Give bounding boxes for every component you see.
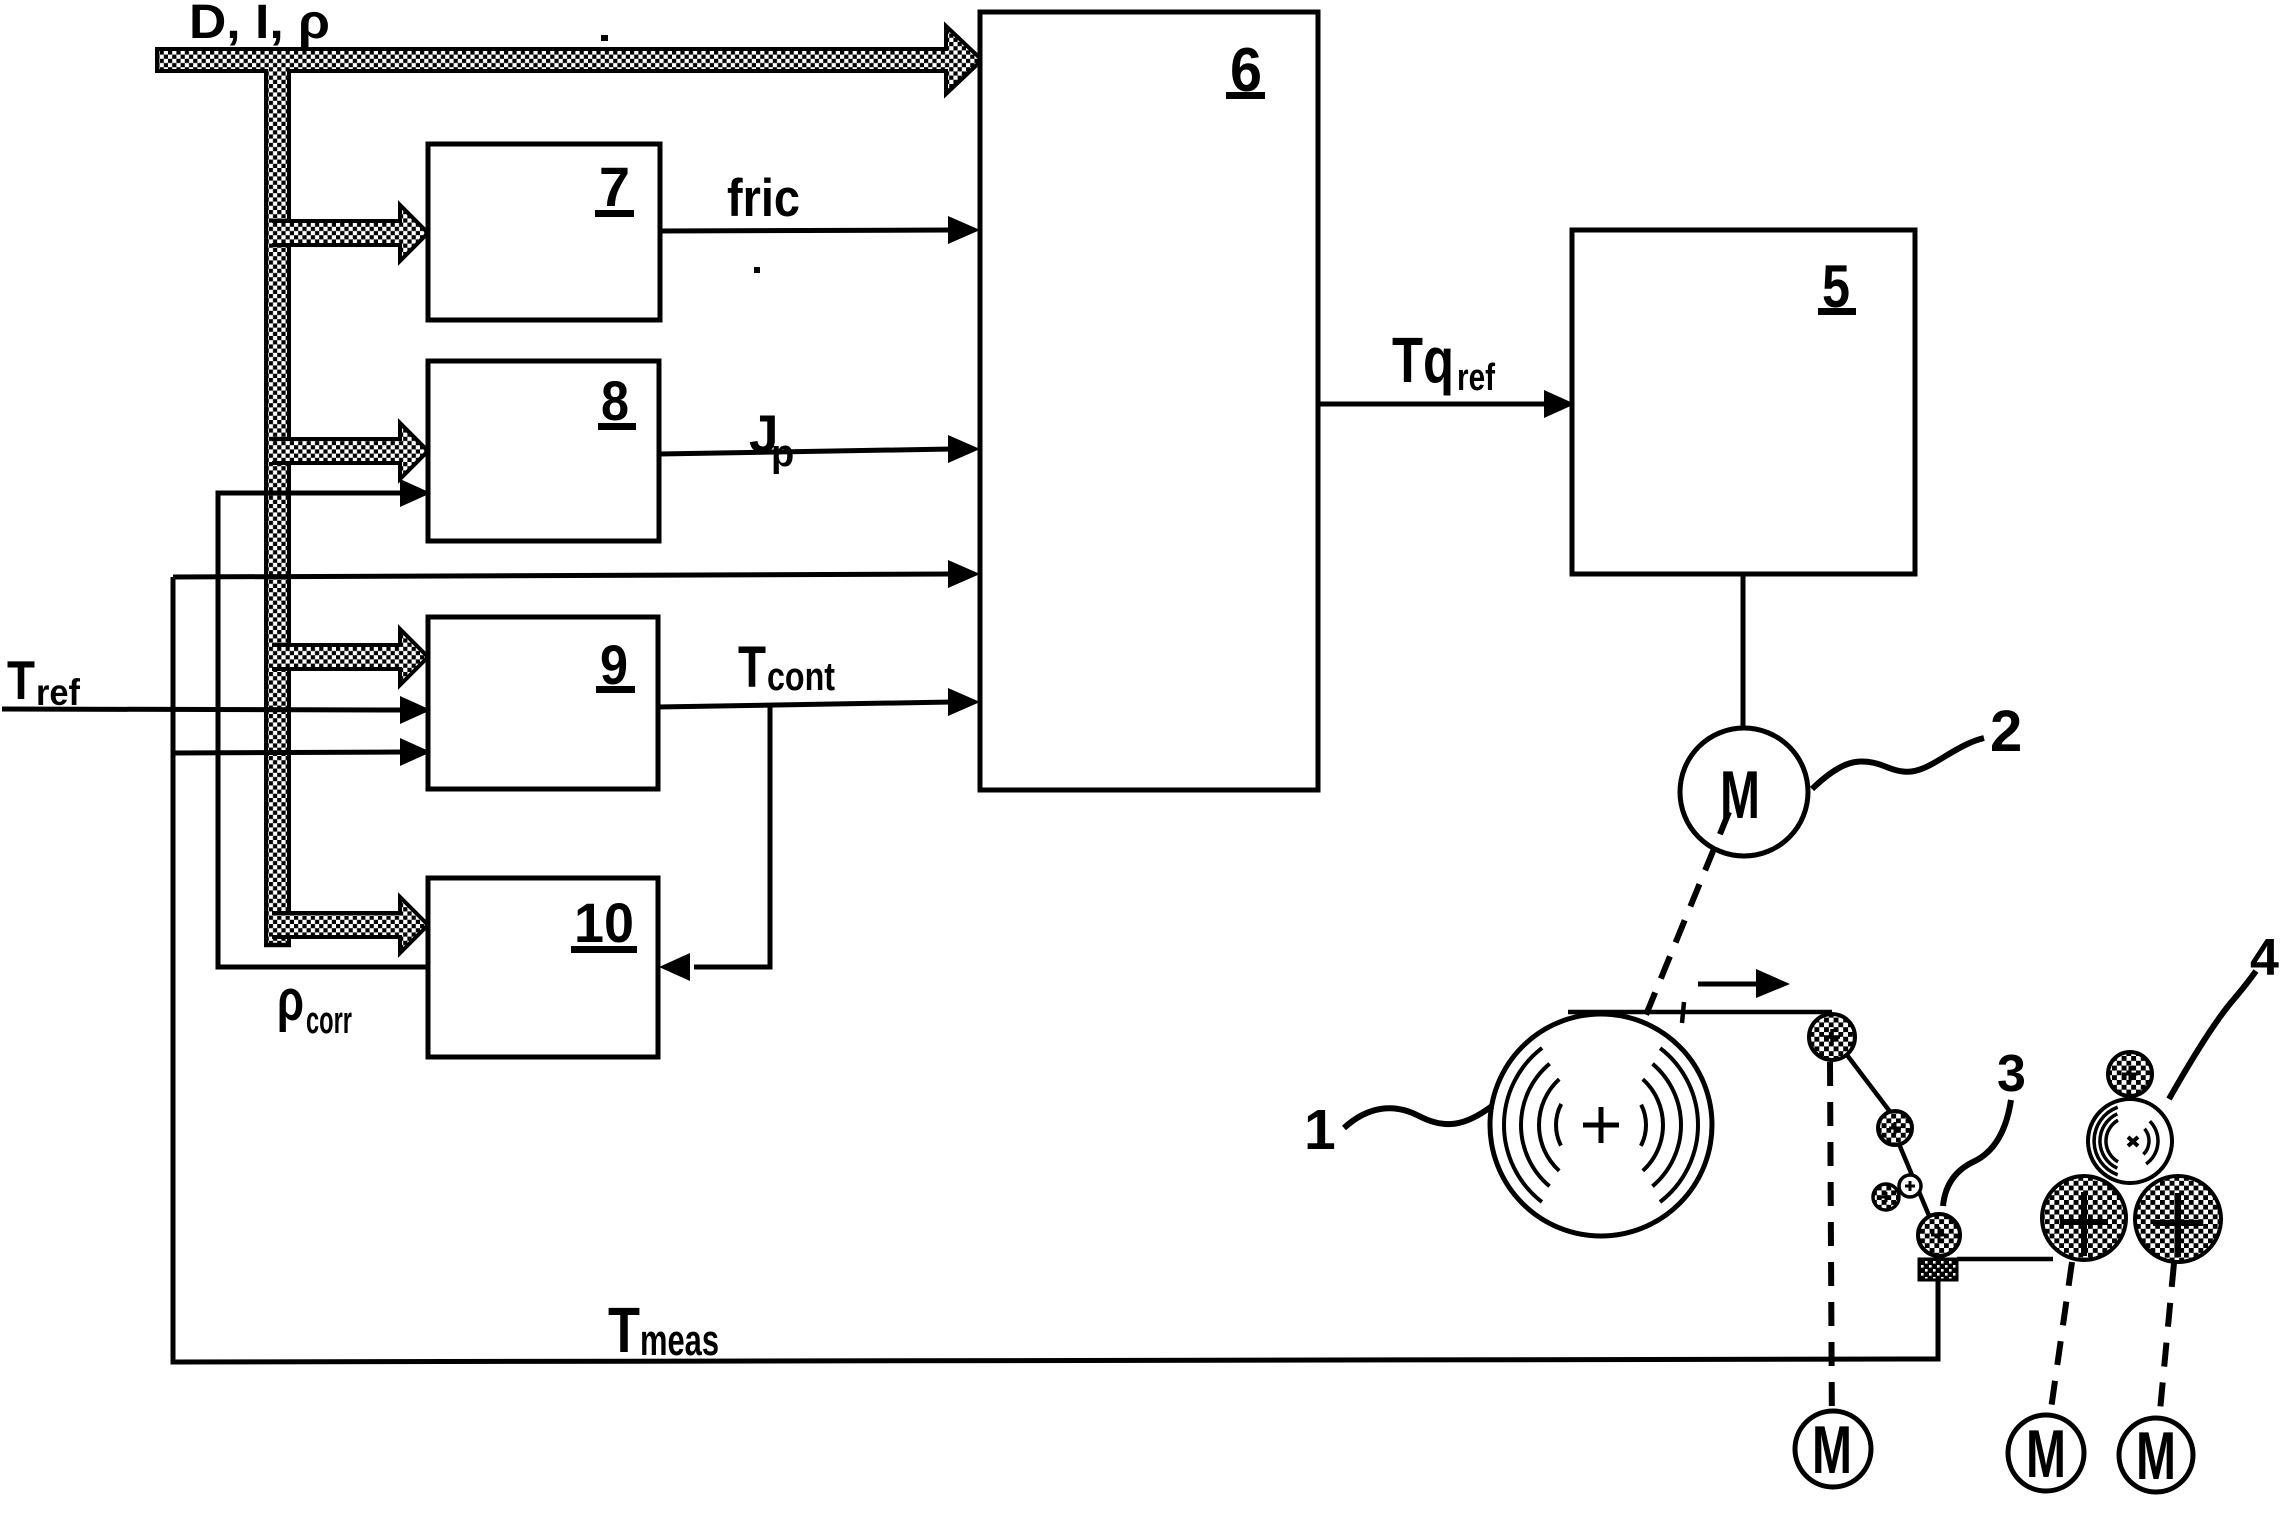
- svg-text:corr: corr: [306, 1000, 352, 1042]
- svg-text:8: 8: [601, 369, 629, 432]
- block 7: [428, 144, 660, 320]
- guide roller above M drive: [1809, 1014, 1855, 1060]
- dashed drive line right nip roller to motor: [2158, 1263, 2174, 1432]
- web segment guide roller to roller 2: [1847, 1055, 1891, 1113]
- small roller pair right: [1899, 1175, 1921, 1197]
- motor M 2: [1680, 728, 1808, 856]
- svg-text:T: T: [738, 635, 766, 700]
- block 9: [428, 617, 658, 789]
- svg-text:M: M: [2136, 1418, 2176, 1494]
- block 6: [980, 12, 1318, 790]
- svg-text:ρ: ρ: [277, 968, 304, 1033]
- svg-text:M: M: [1812, 1412, 1852, 1488]
- reel 1 outer circle: [1490, 1014, 1712, 1236]
- web line from reel to guide roller: [1568, 1010, 1832, 1015]
- web tick mark: [1682, 1002, 1684, 1023]
- svg-text:7: 7: [599, 155, 630, 218]
- web direction arrow: [1698, 982, 1760, 987]
- web line from load cell to winder nip: [1957, 1257, 2053, 1262]
- wire Tmeas branch into block 9: [173, 752, 404, 753]
- wire Tq_ref from block 6 to block 5: [1318, 402, 1548, 407]
- wire: hatched bus D,I,rho horizontal with block arrow into block 6: [157, 26, 982, 94]
- wire Tref into block 9: [2, 709, 404, 710]
- wire from block 5 down to motor 2: [1741, 574, 1746, 729]
- dashed drive shaft from motor 2 to reel 1: [1603, 812, 1729, 1120]
- wire fric from block 7 to block 6: [660, 230, 952, 231]
- leader squiggle to label 3: [1943, 1100, 2011, 1206]
- decorative dot near rho: [601, 35, 608, 41]
- svg-text:4: 4: [2250, 929, 2279, 987]
- dashed drive line left nip roller to motor: [2048, 1262, 2072, 1430]
- leader squiggle to label 2: [1812, 738, 1984, 789]
- winder nip roller right: [2135, 1176, 2221, 1262]
- small roller pair left: [1873, 1184, 1899, 1210]
- block 8: [428, 361, 659, 541]
- wire Tcont from block 9 to block 6: [658, 702, 952, 707]
- svg-text:fric: fric: [727, 169, 800, 228]
- web segment roller 2 to roller 3: [1899, 1144, 1930, 1218]
- block 10: [428, 878, 658, 1057]
- wire: hatched branch arrow into block 7: [272, 205, 428, 261]
- winder roll 4: [2088, 1099, 2172, 1183]
- drive motor M left: [2008, 1415, 2084, 1491]
- svg-text:1: 1: [1304, 1098, 1336, 1162]
- wire Jp from block 8 to block 6: [659, 449, 952, 454]
- leader squiggle to label 1: [1344, 1106, 1492, 1128]
- wire Tmeas into block 6 (long horizontal): [173, 574, 952, 577]
- wire Tmeas vertical riser on left: [173, 577, 1938, 1362]
- wire: hatched branch arrow into block 8: [272, 423, 428, 479]
- roller 3 tension roller: [1918, 1214, 1960, 1256]
- wire Tcont feedback branch into block 10: [694, 705, 770, 967]
- svg-text:Tq: Tq: [1392, 324, 1454, 396]
- leader squiggle to label 4: [2169, 971, 2256, 1099]
- block 5: [1572, 230, 1915, 574]
- wire rho_corr from block 10 to block 8: [218, 493, 428, 967]
- decorative dot near fric line: [754, 267, 760, 273]
- svg-text:T: T: [608, 1294, 640, 1366]
- drive motor M under guide roller: [1795, 1411, 1871, 1487]
- svg-text:cont: cont: [767, 655, 835, 699]
- decorative dot above block 6: [1232, 144, 1240, 150]
- winder top rider roller: [2108, 1052, 2152, 1096]
- reel 1 winding arcs: [1556, 1080, 1646, 1170]
- drive motor M right: [2119, 1418, 2193, 1492]
- svg-text:ref: ref: [1457, 357, 1495, 399]
- svg-text:p: p: [771, 433, 794, 475]
- dashed drive line from guide roller to motor M: [1830, 1062, 1832, 1438]
- wire: hatched bus vertical drop: [266, 67, 289, 945]
- svg-text:ref: ref: [36, 672, 81, 713]
- load cell under roller 3: [1919, 1259, 1957, 1280]
- svg-text:2: 2: [1990, 699, 2022, 764]
- wire: hatched branch arrow into block 9: [272, 629, 428, 685]
- svg-text:T: T: [7, 649, 35, 711]
- roller 2: [1878, 1111, 1912, 1145]
- svg-text:D, I, ρ: D, I, ρ: [189, 0, 330, 49]
- winder nip roller left: [2042, 1176, 2126, 1260]
- wire: hatched branch arrow into block 10: [272, 897, 428, 953]
- svg-text:3: 3: [1997, 1045, 2026, 1103]
- svg-text:meas: meas: [640, 1316, 719, 1365]
- svg-text:10: 10: [574, 891, 634, 954]
- reel 1 center cross: [1583, 1123, 1619, 1128]
- svg-text:M: M: [2026, 1416, 2066, 1492]
